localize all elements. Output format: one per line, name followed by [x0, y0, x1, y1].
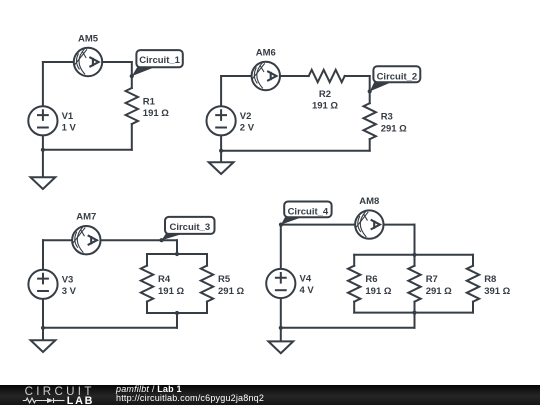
resistor R5: [201, 266, 213, 302]
wire R6 bottom lead: [353, 302, 355, 313]
node C3 net node: [159, 238, 163, 242]
svg-text:LAB: LAB: [67, 395, 94, 405]
wire R7 bottom lead: [414, 302, 416, 313]
svg-text:191 Ω: 191 Ω: [365, 286, 391, 297]
svg-text:AM5: AM5: [78, 33, 99, 44]
footer bar: [0, 385, 540, 405]
svg-text:R8: R8: [484, 274, 496, 285]
node C3 rail top junction: [175, 252, 179, 256]
svg-text:Circuit_4: Circuit_4: [288, 207, 329, 218]
svg-text:V1: V1: [62, 111, 74, 122]
voltage source V4: [266, 269, 295, 298]
svg-text:R7: R7: [426, 274, 438, 285]
wire R3 top lead: [369, 76, 371, 103]
svg-text:Circuit_1: Circuit_1: [139, 55, 180, 66]
wire C3 top rail: [147, 253, 207, 255]
wire C3 drop to rail: [176, 240, 178, 254]
wire R6 top lead: [353, 255, 355, 266]
svg-text:Circuit_2: Circuit_2: [377, 71, 418, 82]
wire C2 top left: [221, 75, 309, 77]
resistor R8: [467, 266, 479, 302]
wire C3 bottom: [43, 327, 177, 329]
net label Circuit_1: [132, 50, 183, 76]
wire R7 top lead: [414, 255, 416, 266]
svg-text:R5: R5: [218, 274, 231, 285]
svg-text:291 Ω: 291 Ω: [426, 286, 452, 297]
wire C4 rail to bottom: [414, 313, 416, 328]
node C3 bottom junction: [41, 326, 45, 330]
resistor R6: [348, 266, 360, 302]
wire R3 bottom lead: [369, 139, 371, 151]
ammeter AM6: [252, 62, 280, 90]
node C4 rail top junction: [412, 253, 416, 257]
wire V2 left branch: [220, 76, 222, 151]
svg-text:291 Ω: 291 Ω: [218, 286, 244, 297]
net label Circuit_4: [281, 202, 332, 225]
node C4 net node: [279, 223, 283, 227]
svg-text:V2: V2: [240, 111, 252, 122]
svg-text:191 Ω: 191 Ω: [312, 101, 338, 112]
wire R5 bottom lead: [206, 302, 208, 313]
resistor R4: [141, 266, 153, 302]
svg-text:Circuit_3: Circuit_3: [169, 222, 210, 233]
CircuitLab logo: [0, 385, 110, 405]
wire C3 rail to bottom: [176, 313, 178, 328]
svg-text:2 V: 2 V: [240, 122, 255, 133]
wire C4 top: [281, 224, 415, 226]
logo wire with resistor and diode: [23, 398, 65, 403]
resistor R3: [364, 103, 376, 139]
wire C1 bottom: [43, 149, 132, 151]
wire V3 left branch: [42, 240, 44, 328]
net label Circuit_2: [370, 66, 421, 91]
wire C4 bottom: [281, 327, 415, 329]
wire V1 left branch: [42, 62, 44, 150]
ammeter AM7: [72, 226, 100, 254]
node C1 bottom junction: [41, 148, 45, 152]
wire R1 top lead: [131, 62, 133, 88]
wire C4 top rail: [354, 254, 473, 256]
ammeter AM8: [355, 210, 383, 238]
wire C3 top: [43, 239, 177, 241]
voltage source V1: [28, 106, 57, 135]
resistor R1: [126, 88, 138, 124]
net label Circuit_3: [162, 217, 215, 240]
svg-text:V3: V3: [62, 274, 74, 285]
wire V4 left branch: [280, 225, 282, 328]
svg-text:R6: R6: [365, 274, 377, 285]
wire C2 top right: [345, 75, 370, 77]
wire C4 drop to rail: [414, 225, 416, 255]
wire C1 top: [43, 61, 132, 63]
svg-text:3 V: 3 V: [62, 286, 77, 297]
resistor R2: [309, 70, 345, 82]
resistor R7: [408, 266, 420, 302]
svg-text:R3: R3: [381, 112, 393, 123]
node C4 bottom junction: [279, 326, 283, 330]
node C2 net node: [368, 89, 372, 93]
ground GND3: [31, 340, 56, 352]
wire R4 top lead: [146, 254, 148, 266]
wire C2 bottom: [221, 150, 370, 152]
node C1 net node: [130, 74, 134, 78]
wire C3 bottom rail: [147, 312, 207, 314]
node C3 rail bottom junction: [175, 311, 179, 315]
wire C4 ground stem: [280, 328, 282, 342]
svg-text:AM6: AM6: [256, 47, 276, 58]
voltage source V3: [28, 270, 57, 299]
node C2 bottom junction: [219, 149, 223, 153]
svg-text:391 Ω: 391 Ω: [484, 286, 510, 297]
wire R8 top lead: [472, 255, 474, 266]
wire C3 ground stem: [42, 328, 44, 340]
node C4 rail bottom junction: [412, 311, 416, 315]
wire C1 ground stem: [42, 150, 44, 177]
wire C4 bottom rail: [354, 312, 473, 314]
svg-text:1 V: 1 V: [62, 122, 77, 133]
svg-text:R4: R4: [158, 274, 171, 285]
wire R1 bottom lead: [131, 124, 133, 150]
svg-text:191 Ω: 191 Ω: [143, 108, 169, 119]
ground GND4: [268, 341, 293, 353]
ground GND2: [209, 162, 234, 174]
svg-text:R1: R1: [143, 97, 156, 108]
svg-text:AM8: AM8: [359, 196, 379, 207]
voltage source V2: [207, 106, 236, 135]
svg-text:191 Ω: 191 Ω: [158, 286, 184, 297]
svg-text:R2: R2: [319, 89, 331, 100]
svg-text:V4: V4: [300, 274, 312, 285]
wire R4 bottom lead: [146, 302, 148, 313]
wire R5 top lead: [206, 254, 208, 266]
wire C2 ground stem: [220, 151, 222, 163]
wire R8 bottom lead: [472, 302, 474, 313]
svg-text:AM7: AM7: [76, 212, 96, 223]
svg-text:4 V: 4 V: [300, 285, 315, 296]
ammeter AM5: [74, 48, 102, 76]
ground GND1: [31, 177, 56, 189]
svg-text:291 Ω: 291 Ω: [381, 124, 407, 135]
